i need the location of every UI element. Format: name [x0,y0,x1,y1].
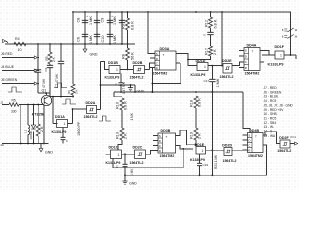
svg-text:R21 1 MK: R21 1 MK [214,154,218,169]
svg-text:1 MK: 1 MK [89,35,93,44]
svg-text:DD2D: DD2D [222,144,232,148]
svg-text:1 MK: 1 MK [216,78,220,87]
svg-text:56 K: 56 K [131,52,135,60]
svg-text:C17: C17 [204,79,210,83]
svg-text:R17: R17 [204,48,208,55]
svg-text:1: 1 [118,153,120,157]
svg-text:DD1C: DD1C [109,146,119,150]
svg-text:2 K: 2 K [213,49,217,55]
svg-text:DD2B: DD2B [133,61,143,65]
svg-text:GND: GND [129,181,137,185]
svg-text:2 K: 2 K [123,133,127,139]
svg-text:C9: C9 [101,18,105,23]
svg-text:1 MK: 1 MK [130,112,134,120]
svg-text:6.8 K: 6.8 K [123,101,127,110]
svg-text:C10: C10 [101,36,105,43]
svg-text:DD2F: DD2F [279,136,289,140]
svg-text:K133LP9: K133LP9 [190,158,205,162]
svg-text:330: 330 [11,110,17,114]
svg-text:S: S [156,52,158,56]
svg-text:DD4A: DD4A [247,44,257,48]
svg-text:K133LP9: K133LP9 [105,76,120,80]
svg-text:1564TM2: 1564TM2 [245,71,260,75]
svg-text:C: C [66,139,68,143]
svg-text:1 MK: 1 MK [89,16,93,25]
svg-text:1564TL2: 1564TL2 [130,161,144,165]
svg-text:C8: C8 [77,18,81,23]
svg-text:1: 1 [64,122,66,126]
svg-text:1 MK: 1 MK [130,168,134,176]
svg-text:1564TL2: 1564TL2 [277,149,291,153]
svg-text:1: 1 [280,54,282,58]
svg-text:1564TL2: 1564TL2 [84,115,98,119]
svg-text:DD3B: DD3B [161,129,171,133]
svg-text:J4 BLUE: J4 BLUE [1,65,15,69]
svg-text:R5: R5 [12,99,16,103]
svg-text:1 MK: 1 MK [113,35,117,44]
svg-text:T: T [255,134,257,138]
svg-text:2 K: 2 K [40,126,44,132]
svg-text:R13: R13 [116,132,120,139]
svg-text:K133LP9: K133LP9 [191,73,206,77]
svg-text:T: T [166,135,168,139]
svg-text:10: 10 [18,48,22,52]
svg-text:KC1: KC1 [291,135,297,139]
svg-text:T: T [252,49,254,53]
svg-text:R3: R3 [45,56,49,60]
svg-text:2 K: 2 K [74,89,78,94]
svg-text:GND: GND [90,53,98,57]
svg-text:C7 47 MK: C7 47 MK [55,73,59,88]
svg-text:R6: R6 [67,90,71,94]
svg-text:GND: GND [137,89,145,93]
svg-text:1500 PF: 1500 PF [77,121,81,136]
svg-text:1564TL2: 1564TL2 [130,76,144,80]
svg-text:6.8 K: 6.8 K [214,19,218,28]
svg-text:1: 1 [204,65,206,69]
svg-text:J5 GREEN: J5 GREEN [1,78,18,82]
svg-text:R19: R19 [190,132,194,139]
svg-text:1: 1 [202,149,204,153]
svg-text:C: C [203,33,205,37]
svg-text:C19: C19 [203,163,209,167]
svg-text:47 MK: 47 MK [42,78,46,88]
svg-text:1 MK: 1 MK [113,16,117,25]
svg-text:DD1A: DD1A [55,115,65,119]
svg-text:K133LP9: K133LP9 [52,130,67,134]
svg-text:DD3A: DD3A [160,47,170,51]
svg-text:1564TM2: 1564TM2 [160,154,175,158]
svg-text:GND: GND [45,151,53,155]
svg-text:6.8 K: 6.8 K [131,21,135,30]
svg-text:1564TL2: 1564TL2 [223,159,237,163]
svg-text:2 K: 2 K [197,133,201,139]
svg-text:1: 1 [116,68,118,72]
svg-text:DD2A: DD2A [86,101,96,105]
svg-text:T: T [163,53,165,57]
svg-text:1564TM2: 1564TM2 [248,154,263,158]
svg-text:1564TM2: 1564TM2 [153,72,168,76]
svg-text:K133LP9: K133LP9 [268,63,284,67]
svg-text:J6 RED: J6 RED [1,52,13,56]
svg-text:DD1F: DD1F [275,45,285,49]
svg-text:C6: C6 [77,37,81,42]
svg-text:S: S [159,134,161,138]
svg-text:DD1B: DD1B [108,61,118,65]
svg-text:R4: R4 [15,37,20,41]
svg-text:S: S [245,49,247,53]
svg-text:R18: R18 [190,100,194,107]
svg-text:R8: R8 [121,54,125,59]
svg-text:R10: R10 [116,102,120,109]
svg-text:100MK: 100MK [29,131,33,140]
svg-text:L1: L1 [24,129,28,133]
svg-text:6.8 K: 6.8 K [197,98,201,107]
svg-text:DD2C: DD2C [133,146,143,150]
svg-text:S: S [248,134,250,138]
svg-text:C6: C6 [44,67,48,71]
svg-text:C: C [115,83,117,87]
svg-text:DD2E: DD2E [222,59,232,63]
svg-text:R12: R12 [204,20,208,27]
svg-text:1564TL2: 1564TL2 [220,75,234,79]
svg-text:J2: J2 [0,100,3,104]
svg-text:Q1: Q1 [42,89,47,93]
svg-text:R9: R9 [121,24,125,29]
